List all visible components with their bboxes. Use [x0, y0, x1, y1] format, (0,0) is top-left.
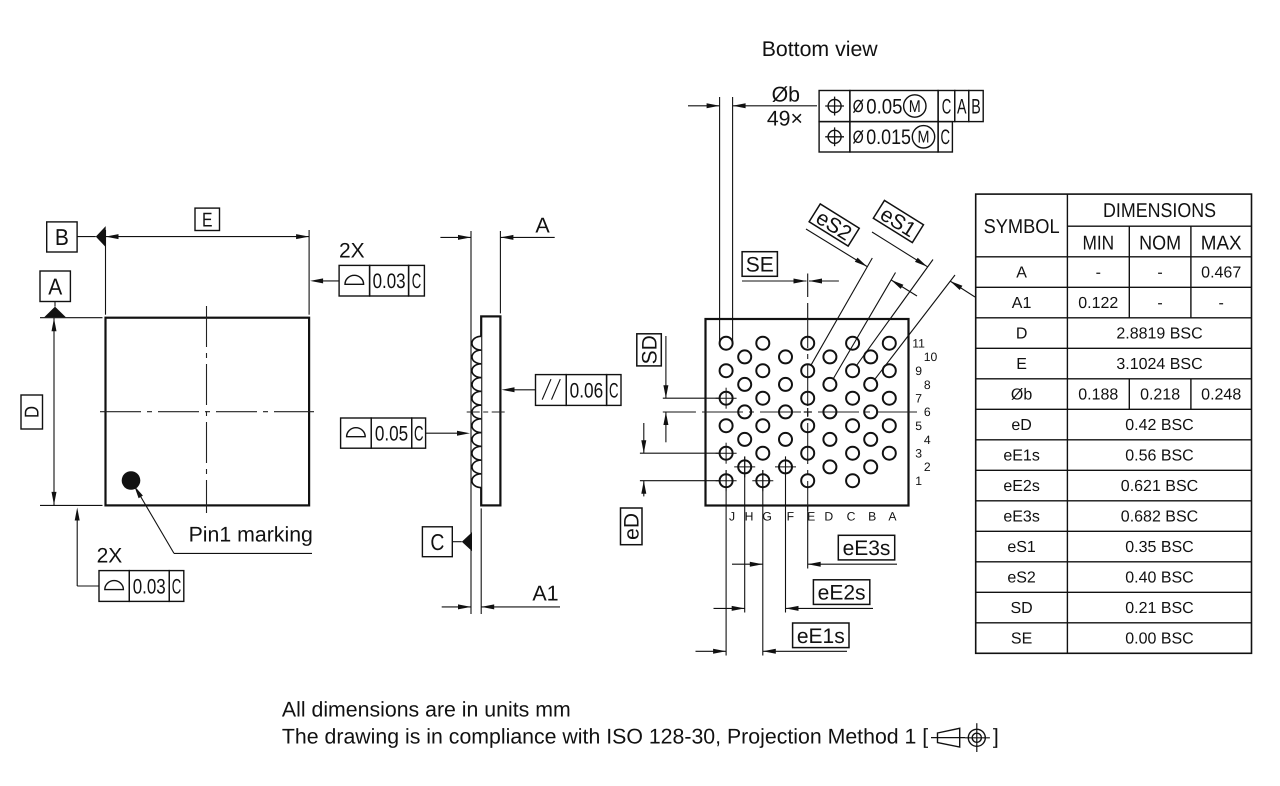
svg-text:B: B: [55, 224, 69, 250]
eS extension line at ball D8: [833, 273, 895, 379]
dimension eE3s: [732, 562, 897, 567]
svg-text:J: J: [729, 510, 735, 524]
bottom view title: [762, 37, 879, 61]
svg-text:SD: SD: [1010, 600, 1032, 617]
svg-text:0.248: 0.248: [1201, 387, 1241, 404]
svg-text:0.42 BSC: 0.42 BSC: [1125, 417, 1193, 434]
bottom view center mark: [804, 408, 812, 416]
svg-text:C: C: [847, 510, 856, 524]
label 49x: [767, 107, 803, 131]
dimension eE2s: [714, 606, 874, 611]
svg-text:D: D: [1016, 326, 1028, 343]
label eS2: [808, 204, 859, 248]
column letters J-A: [729, 510, 897, 524]
svg-text:E: E: [202, 210, 213, 232]
svg-text:10: 10: [924, 350, 938, 364]
svg-text:B: B: [971, 96, 981, 119]
svg-text:M: M: [909, 97, 921, 116]
side view body: [481, 316, 500, 505]
svg-text:0.03: 0.03: [133, 575, 166, 598]
side view solder bumps: [472, 336, 481, 487]
svg-text:0.621 BSC: 0.621 BSC: [1121, 478, 1198, 495]
svg-text:A1: A1: [532, 582, 558, 606]
profile tolerance frame (top): [310, 265, 424, 296]
label eE1s: [793, 623, 849, 648]
svg-text:SE: SE: [746, 254, 774, 277]
svg-text:3: 3: [915, 447, 922, 461]
extension line column E: [807, 506, 809, 569]
label A1 (dimension): [532, 582, 558, 606]
dimension eD: [640, 423, 720, 496]
bottom view horizontal centerline: [694, 411, 921, 413]
parallelism tolerance frame: [502, 375, 622, 406]
eS extension line at ball E9: [811, 258, 872, 365]
profile tolerance frame (side): [341, 418, 470, 448]
top view horizontal centerline: [100, 411, 314, 413]
svg-text:MIN: MIN: [1082, 233, 1114, 255]
diameter b tangent lines: [720, 97, 733, 344]
svg-text:0.56 BSC: 0.56 BSC: [1125, 448, 1193, 465]
svg-text:-: -: [1096, 265, 1101, 282]
bottom view body: [706, 319, 909, 506]
pin1 leader: [134, 486, 312, 554]
projection method symbol: [931, 723, 990, 752]
svg-text:A: A: [48, 274, 63, 300]
label eD: [621, 508, 644, 545]
pin1 marking dot: [122, 471, 141, 490]
svg-text:0.122: 0.122: [1078, 295, 1118, 312]
svg-text:C: C: [609, 379, 619, 402]
svg-text:3.1024 BSC: 3.1024 BSC: [1116, 356, 1202, 373]
svg-text:eD: eD: [1011, 417, 1031, 434]
svg-text:0.682 BSC: 0.682 BSC: [1121, 509, 1198, 526]
svg-text:E: E: [1016, 356, 1027, 373]
svg-text:2.8819 BSC: 2.8819 BSC: [1116, 326, 1202, 343]
svg-text:eE1s: eE1s: [797, 625, 845, 648]
svg-text:0.35 BSC: 0.35 BSC: [1125, 539, 1193, 556]
svg-text:G: G: [762, 510, 771, 524]
svg-text:49×: 49×: [767, 107, 803, 131]
top view package body: [106, 318, 310, 506]
svg-text:-: -: [1157, 265, 1162, 282]
svg-text:F: F: [787, 510, 794, 524]
svg-text:Pin1 marking: Pin1 marking: [189, 523, 313, 547]
svg-text:eE3s: eE3s: [843, 537, 891, 560]
svg-text:-: -: [1219, 295, 1224, 312]
position tolerance frame row1: [819, 91, 983, 122]
svg-text:eD: eD: [621, 513, 644, 540]
extension line column H: [744, 457, 746, 613]
note 2x (bottom): [97, 545, 123, 568]
svg-text:0.467: 0.467: [1201, 265, 1241, 282]
svg-text:0.06: 0.06: [570, 379, 604, 402]
position tolerance frame row2: [819, 122, 952, 152]
label D: [21, 395, 44, 429]
label eS1: [872, 200, 923, 244]
note units: [282, 697, 571, 721]
svg-text:Bottom view: Bottom view: [762, 37, 879, 61]
svg-text:C: C: [430, 529, 444, 555]
dimension SD: [663, 336, 720, 442]
dimension A1 line: [442, 604, 560, 609]
bottom view vertical centerline: [807, 319, 809, 511]
dimension eE1s: [696, 649, 848, 654]
label eE2s: [813, 580, 869, 605]
dimensions table: [976, 194, 1252, 653]
dimension E line: [106, 234, 310, 239]
label eE3s: [838, 535, 894, 560]
svg-text:C: C: [414, 423, 424, 446]
svg-text:A: A: [957, 96, 967, 119]
svg-text:eE2s: eE2s: [818, 582, 866, 605]
svg-text:]: ]: [993, 724, 999, 748]
diameter b dimension line: [688, 103, 817, 108]
svg-text:0.188: 0.188: [1078, 387, 1118, 404]
datum A symbol: [40, 271, 70, 317]
label SD: [637, 334, 662, 366]
extension line column J: [725, 470, 727, 656]
svg-text:2X: 2X: [97, 545, 123, 568]
dimension D line: [52, 318, 57, 506]
svg-text:The drawing is in compliance w: The drawing is in compliance with ISO 12…: [282, 724, 928, 748]
svg-text:C: C: [940, 126, 950, 149]
note compliance: [282, 724, 928, 748]
dimension A1 extension line: [480, 508, 482, 614]
svg-text:0.05: 0.05: [866, 96, 902, 119]
svg-text:0.00 BSC: 0.00 BSC: [1125, 631, 1193, 648]
svg-text:eE1s: eE1s: [1003, 448, 1039, 465]
svg-text:eE2s: eE2s: [1003, 478, 1039, 495]
pin1 marking text: [189, 523, 313, 547]
svg-text:B: B: [868, 510, 876, 524]
svg-text:All dimensions are in units mm: All dimensions are in units mm: [282, 697, 571, 721]
svg-text:C: C: [172, 575, 182, 598]
svg-text:0.21 BSC: 0.21 BSC: [1125, 600, 1193, 617]
svg-text:-: -: [1157, 295, 1162, 312]
svg-text:0.015: 0.015: [866, 126, 911, 149]
datum C symbol: [422, 527, 472, 557]
label SE: [742, 252, 777, 277]
svg-text:MAX: MAX: [1201, 233, 1242, 255]
svg-text:0.218: 0.218: [1140, 387, 1180, 404]
svg-text:1: 1: [915, 474, 922, 488]
svg-text:C: C: [412, 270, 422, 293]
svg-text:D: D: [824, 510, 833, 524]
svg-text:A: A: [1016, 265, 1027, 282]
svg-text:eE3s: eE3s: [1003, 509, 1039, 526]
row numbers 1-11: [912, 337, 937, 489]
extension line column G: [762, 470, 764, 656]
dimension D extension lines: [40, 318, 103, 506]
dimension A line: [440, 235, 554, 240]
profile tolerance frame (bottom): [75, 508, 184, 602]
eS extension line at ball C9: [856, 260, 933, 366]
label E: [195, 208, 220, 231]
ball grid (49 bumps): [720, 337, 896, 488]
dimension eS2: [806, 229, 917, 296]
note closing bracket: [993, 724, 999, 748]
svg-text:5: 5: [915, 419, 922, 433]
svg-text:7: 7: [915, 392, 922, 406]
svg-text:NOM: NOM: [1139, 233, 1181, 255]
top view vertical centerline: [206, 306, 208, 513]
svg-text:SYMBOL: SYMBOL: [984, 216, 1060, 238]
label diameter b: [772, 83, 800, 107]
dimension E extension lines: [106, 230, 310, 315]
svg-text:9: 9: [915, 364, 922, 378]
dimension eS1: [872, 232, 975, 297]
svg-text:C: C: [942, 96, 952, 119]
svg-text:DIMENSIONS: DIMENSIONS: [1103, 200, 1216, 222]
svg-text:A1: A1: [1012, 295, 1032, 312]
svg-text:A: A: [888, 510, 897, 524]
note 2x (top): [339, 240, 365, 263]
svg-text:eS2: eS2: [1007, 570, 1036, 587]
label A (dimension): [535, 214, 550, 238]
svg-text:4: 4: [924, 433, 931, 447]
ball crosshairs: [716, 388, 796, 492]
svg-text:H: H: [745, 510, 754, 524]
svg-text:0.03: 0.03: [373, 270, 406, 293]
svg-text:0.05: 0.05: [375, 423, 408, 446]
svg-text:Øb: Øb: [1011, 387, 1032, 404]
dimension SE: [742, 274, 839, 320]
svg-text:0.40 BSC: 0.40 BSC: [1125, 570, 1193, 587]
svg-text:11: 11: [912, 337, 925, 351]
eS extension line at ball B8: [875, 275, 955, 379]
svg-text:M: M: [918, 128, 930, 147]
dimension A extension lines: [471, 231, 500, 614]
svg-text:Øb: Øb: [772, 83, 800, 107]
svg-text:6: 6: [924, 405, 931, 419]
svg-text:8: 8: [924, 378, 931, 392]
svg-text:eS1: eS1: [1007, 539, 1036, 556]
svg-text:SE: SE: [1011, 631, 1032, 648]
svg-text:2X: 2X: [339, 240, 365, 263]
extension line column F: [785, 457, 787, 613]
svg-text:2: 2: [924, 460, 931, 474]
side view centerline: [467, 411, 507, 413]
svg-text:D: D: [22, 406, 44, 418]
datum B symbol: [47, 222, 106, 252]
svg-text:A: A: [535, 214, 550, 238]
svg-text:SD: SD: [639, 335, 662, 364]
svg-text:E: E: [807, 510, 815, 524]
